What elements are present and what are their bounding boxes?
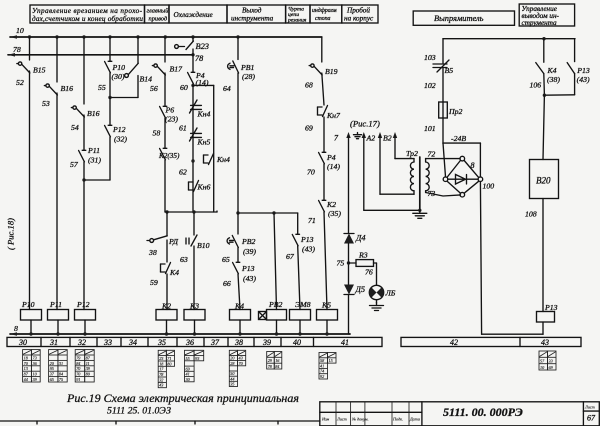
svg-text:60: 60	[180, 83, 188, 92]
svg-text:(43): (43)	[243, 274, 256, 283]
svg-text:75: 75	[59, 377, 63, 382]
svg-text:Кн4: Кн4	[197, 110, 211, 119]
svg-text:32: 32	[77, 338, 86, 347]
svg-text:Р13: Р13	[576, 66, 590, 75]
svg-text:Лист: Лист	[584, 405, 595, 410]
svg-text:(Рис.17): (Рис.17)	[350, 119, 380, 129]
svg-text:42: 42	[450, 338, 458, 347]
svg-text:58: 58	[153, 129, 161, 138]
svg-text:R3: R3	[358, 251, 368, 260]
svg-text:К5: К5	[321, 301, 331, 310]
svg-text:К4: К4	[169, 268, 179, 277]
svg-text:35: 35	[230, 382, 234, 387]
svg-text:38: 38	[148, 248, 157, 257]
svg-text:31: 31	[59, 361, 63, 366]
svg-text:(43): (43)	[302, 245, 315, 254]
svg-text:главный: главный	[147, 8, 170, 15]
svg-text:Р13: Р13	[300, 235, 314, 244]
svg-text:Лист: Лист	[336, 417, 347, 422]
svg-text:ЭМ8: ЭМ8	[295, 300, 311, 309]
svg-text:индфрагм: индфрагм	[312, 7, 337, 14]
svg-text:74: 74	[320, 369, 324, 374]
svg-text:13: 13	[24, 366, 28, 371]
svg-text:стопа: стопа	[315, 16, 331, 22]
svg-text:Р12: Р12	[112, 125, 126, 134]
svg-text:( Рис.18): ( Рис.18)	[6, 218, 16, 250]
svg-text:55: 55	[186, 356, 190, 361]
svg-text:92: 92	[320, 374, 324, 379]
svg-text:Д4: Д4	[355, 234, 366, 243]
svg-text:93: 93	[195, 356, 199, 361]
svg-text:41: 41	[341, 338, 349, 347]
svg-text:Охлаждение: Охлаждение	[174, 11, 214, 19]
svg-text:Р10: Р10	[21, 300, 35, 309]
svg-text:В19: В19	[325, 67, 338, 76]
svg-text:Кн5: Кн5	[197, 138, 211, 147]
svg-text:В5: В5	[445, 66, 454, 75]
svg-text:65: 65	[222, 255, 230, 264]
svg-text:Выпрямитель: Выпрямитель	[434, 14, 484, 23]
svg-text:-24В: -24В	[451, 134, 466, 143]
svg-text:52: 52	[16, 78, 24, 87]
svg-text:31: 31	[49, 338, 58, 347]
svg-text:Кн4: Кн4	[216, 155, 230, 164]
svg-text:(31): (31)	[88, 156, 101, 165]
svg-text:В16: В16	[61, 84, 74, 93]
svg-text:102: 102	[424, 81, 436, 90]
svg-text:72: 72	[428, 150, 436, 159]
svg-text:Р11: Р11	[49, 300, 62, 309]
svg-text:инструмента: инструмента	[231, 15, 274, 23]
svg-text:43: 43	[541, 338, 549, 347]
svg-text:103: 103	[424, 53, 436, 62]
svg-text:84: 84	[59, 372, 63, 377]
svg-text:В14: В14	[140, 75, 153, 84]
svg-text:(38): (38)	[547, 75, 560, 84]
svg-text:дах,счетчиком и конец обработк: дах,счетчиком и конец обработки	[32, 15, 143, 23]
svg-text:5111 25. 01.0ЭЗ: 5111 25. 01.0ЭЗ	[107, 406, 171, 417]
svg-text:(39): (39)	[243, 247, 256, 256]
svg-text:8: 8	[14, 324, 18, 333]
svg-text:75: 75	[337, 259, 345, 268]
svg-text:В15: В15	[33, 66, 46, 75]
svg-text:62: 62	[179, 168, 187, 177]
svg-text:В23: В23	[196, 42, 210, 51]
svg-text:Тр2: Тр2	[406, 149, 418, 158]
svg-text:71: 71	[167, 356, 171, 361]
svg-text:(28): (28)	[242, 72, 255, 81]
svg-text:Р13: Р13	[241, 264, 255, 273]
svg-text:59: 59	[150, 278, 158, 287]
svg-text:78: 78	[195, 54, 203, 63]
svg-text:Р4: Р4	[326, 153, 336, 162]
svg-text:38: 38	[234, 338, 243, 347]
svg-text:73: 73	[33, 355, 37, 360]
svg-text:36: 36	[185, 338, 194, 347]
svg-text:84: 84	[275, 364, 279, 369]
svg-text:Изм: Изм	[321, 417, 330, 422]
svg-text:РВ1: РВ1	[240, 63, 255, 72]
svg-text:(30): (30)	[112, 72, 125, 81]
svg-text:Р6: Р6	[165, 106, 175, 115]
svg-text:РВ2: РВ2	[241, 237, 256, 246]
svg-text:71: 71	[308, 216, 316, 225]
svg-text:(14): (14)	[327, 162, 340, 171]
svg-text:78: 78	[13, 45, 21, 54]
svg-text:15: 15	[329, 358, 333, 363]
svg-text:41: 41	[320, 363, 324, 368]
svg-text:№ докум.: № докум.	[351, 417, 369, 422]
svg-text:Р12: Р12	[76, 300, 90, 309]
svg-text:В20: В20	[536, 176, 551, 186]
svg-text:В2: В2	[383, 134, 392, 143]
svg-text:К2(35): К2(35)	[158, 152, 180, 160]
svg-text:Управление врезанием на прохо-: Управление врезанием на прохо-	[32, 7, 143, 15]
svg-text:33: 33	[103, 338, 112, 347]
svg-text:В17: В17	[170, 65, 184, 74]
svg-text:40: 40	[293, 338, 301, 347]
svg-text:69: 69	[305, 124, 313, 133]
svg-text:Рис.19 Схема электрическая: Рис.19 Схема электрическая принципиальна…	[66, 391, 299, 405]
svg-text:76: 76	[365, 268, 373, 277]
svg-text:Выход: Выход	[242, 7, 262, 15]
svg-text:Р13: Р13	[544, 303, 558, 312]
svg-text:100: 100	[483, 182, 495, 191]
svg-text:В10: В10	[197, 241, 210, 250]
svg-text:106: 106	[530, 81, 542, 90]
svg-text:61: 61	[179, 124, 187, 133]
svg-text:А2: А2	[366, 134, 376, 143]
svg-text:на корпус: на корпус	[344, 15, 374, 23]
svg-text:(32): (32)	[114, 135, 127, 144]
svg-text:37: 37	[210, 338, 220, 347]
svg-text:66: 66	[223, 279, 231, 288]
svg-text:101: 101	[424, 124, 436, 133]
svg-text:(43): (43)	[577, 75, 590, 84]
svg-text:68: 68	[305, 81, 313, 90]
svg-text:56: 56	[150, 84, 158, 93]
svg-text:30: 30	[18, 338, 27, 347]
svg-text:ЛБ: ЛБ	[385, 289, 396, 298]
svg-text:67: 67	[286, 252, 295, 261]
svg-text:33: 33	[549, 359, 553, 364]
svg-text:Р10: Р10	[112, 63, 126, 72]
svg-text:Пробой: Пробой	[346, 7, 370, 15]
svg-text:53: 53	[42, 99, 50, 108]
svg-text:39: 39	[262, 338, 271, 347]
svg-text:(23): (23)	[165, 115, 178, 124]
svg-text:5111. 00. 000РЭ: 5111. 00. 000РЭ	[443, 405, 523, 419]
svg-text:В16: В16	[87, 109, 100, 118]
svg-text:резания: резания	[287, 18, 307, 24]
svg-text:91: 91	[76, 377, 80, 382]
svg-text:35: 35	[157, 338, 166, 347]
svg-text:67: 67	[587, 414, 596, 423]
svg-text:54: 54	[71, 123, 79, 132]
svg-text:11: 11	[86, 361, 90, 366]
svg-text:65: 65	[50, 377, 54, 382]
svg-text:(35): (35)	[328, 209, 341, 218]
svg-text:привод: привод	[149, 16, 168, 23]
svg-text:108: 108	[525, 210, 537, 219]
svg-text:РД: РД	[168, 237, 179, 246]
svg-text:струмента: струмента	[522, 19, 558, 27]
svg-text:К2: К2	[326, 200, 336, 209]
svg-text:55: 55	[98, 83, 106, 92]
svg-text:84: 84	[76, 361, 80, 366]
svg-text:К4: К4	[547, 66, 557, 75]
svg-text:Кн6: Кн6	[197, 183, 211, 192]
svg-text:23: 23	[159, 356, 163, 361]
svg-text:64: 64	[223, 84, 231, 93]
svg-text:70: 70	[307, 168, 315, 177]
svg-text:10: 10	[16, 26, 24, 35]
svg-text:34: 34	[128, 338, 137, 347]
svg-text:РВ2: РВ2	[268, 300, 283, 309]
svg-text:Д5: Д5	[355, 285, 366, 294]
svg-text:Пр2: Пр2	[448, 107, 463, 116]
svg-text:Дата: Дата	[409, 417, 420, 422]
svg-text:8: 8	[471, 161, 475, 170]
svg-text:44: 44	[24, 377, 28, 382]
svg-text:95: 95	[50, 366, 54, 371]
svg-text:57: 57	[70, 160, 79, 169]
svg-text:63: 63	[180, 255, 188, 264]
svg-text:32: 32	[159, 377, 163, 382]
svg-text:Р11: Р11	[87, 146, 100, 155]
svg-text:Подп.: Подп.	[392, 417, 403, 422]
svg-text:Кн7: Кн7	[326, 111, 341, 120]
svg-text:43: 43	[159, 383, 163, 388]
